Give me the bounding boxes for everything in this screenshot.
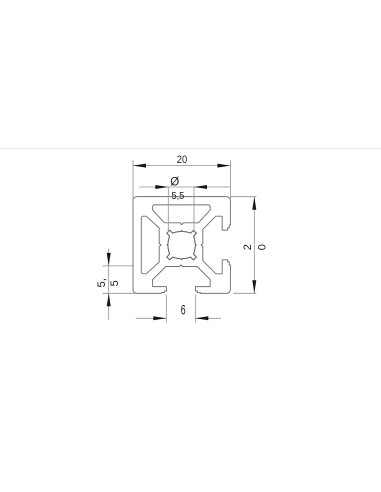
svg-text:5,5: 5,5 xyxy=(171,190,184,202)
svg-text:5,: 5, xyxy=(96,278,108,287)
profile outer contour with right and bottom T-slots xyxy=(133,197,230,294)
dim 6 bottom: left extension line xyxy=(165,295,167,323)
dim 20 right: line xyxy=(253,197,255,293)
top trapezoid cavity xyxy=(153,205,211,225)
dim 20 top: line xyxy=(133,165,230,167)
dim 5,5 left: bottom extension line xyxy=(103,292,138,294)
dim 20 right: top extension line xyxy=(230,196,256,198)
dim 6 bottom: right extension line xyxy=(194,295,196,323)
dim 5,5 left: bottom arrowhead xyxy=(107,293,111,306)
dim dia5,5: line xyxy=(139,186,230,188)
svg-text:5: 5 xyxy=(109,280,121,286)
dim 20 right: bottom extension line xyxy=(234,292,257,294)
dim dia5,5: right arrowhead xyxy=(194,185,207,189)
dim dia5,5: left extension line xyxy=(167,187,169,233)
dim 6 bottom: right line segment xyxy=(195,317,221,319)
page divider rule xyxy=(0,148,381,150)
dim 20 right: top arrowhead xyxy=(252,197,256,210)
dim 5,5 left: top arrowhead xyxy=(107,253,111,266)
dim dia5,5: right extension line xyxy=(193,187,195,233)
svg-text:0: 0 xyxy=(257,244,269,250)
dim 5,5 left: line xyxy=(108,249,110,320)
dim 20 top: left extension line xyxy=(132,160,134,201)
svg-text:Ø: Ø xyxy=(170,176,179,188)
svg-text:20: 20 xyxy=(177,155,188,167)
center screw channel xyxy=(167,230,197,260)
dim 20 top: left arrowhead xyxy=(133,164,146,168)
dim 6 bottom: right arrowhead xyxy=(195,316,208,320)
left trapezoid cavity xyxy=(141,216,161,274)
dim 20 top: right extension line xyxy=(229,160,231,201)
dim 20 top: right arrowhead xyxy=(217,164,230,168)
dim 6 bottom: left line segment xyxy=(136,317,167,319)
dim 20 right: bottom arrowhead xyxy=(252,280,256,293)
dim 6 bottom: left arrowhead xyxy=(153,316,166,320)
dim 5,5 left: top extension line xyxy=(103,265,135,267)
dim dia5,5: left arrowhead xyxy=(155,185,168,189)
svg-text:2: 2 xyxy=(242,244,254,250)
svg-text:6: 6 xyxy=(181,303,186,319)
